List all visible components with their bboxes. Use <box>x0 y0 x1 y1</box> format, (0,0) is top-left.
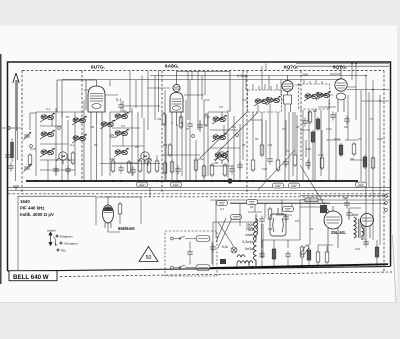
voltage oval AF 3 <box>283 207 294 212</box>
svg-text:0,25: 0,25 <box>334 137 340 141</box>
long vertical wires right <box>348 76 380 246</box>
warning triangle 50 <box>139 247 158 262</box>
IFT2 coil left <box>254 97 269 106</box>
resistor R9 <box>168 143 172 157</box>
antenna series capacitor <box>8 163 14 172</box>
small cap right mid <box>344 200 350 209</box>
terminal A <box>8 127 11 130</box>
svg-text:8mf: 8mf <box>352 213 358 217</box>
junction dots rails <box>340 63 381 102</box>
antenna lead wire <box>16 80 18 181</box>
tuning gang capacitor 2 <box>23 164 31 172</box>
tube V3 6Q7G <box>282 76 293 113</box>
svg-text:0,1: 0,1 <box>70 143 75 147</box>
mains capacitor <box>187 249 193 258</box>
voltage oval AF 1 <box>217 201 228 206</box>
svg-text:900/gram: 900/gram <box>60 235 73 239</box>
resistor R19 <box>352 142 356 156</box>
capacitor C8 <box>267 156 273 165</box>
svg-text:0,25: 0,25 <box>377 137 383 141</box>
right terminals <box>385 195 388 198</box>
zigzag resistor AF <box>256 214 258 240</box>
capacitor mains left <box>210 244 216 253</box>
capacitor C2b <box>130 167 136 176</box>
capacitor C7 <box>175 166 181 175</box>
diagonal resistor R26 <box>300 243 311 257</box>
svg-text:1640: 1640 <box>20 199 30 204</box>
svg-text:100: 100 <box>306 147 311 151</box>
resistor R22 magic eye <box>118 202 122 216</box>
plate rail <box>150 75 366 77</box>
resistor R4 <box>155 159 159 173</box>
resistor left column <box>71 151 75 165</box>
electrolytic can <box>270 208 286 236</box>
antenna coupling coil <box>10 138 14 162</box>
voltage oval above transformer <box>231 215 242 220</box>
transformer heater winding 2 <box>237 255 253 263</box>
diagonal wire 3 <box>258 150 295 190</box>
top right rail 2 <box>296 65 389 67</box>
resistor R5 <box>28 153 32 167</box>
lamp diagonal X wires <box>216 218 234 248</box>
switch contact s2 <box>58 127 61 130</box>
resistor R18 <box>339 143 343 157</box>
dashed vertical x82 <box>81 71 83 181</box>
mains terminal bottom <box>171 266 174 269</box>
page bottom edge <box>0 302 397 304</box>
dashed vertical x384 <box>383 71 385 274</box>
svg-text:0,01: 0,01 <box>198 157 204 161</box>
dashed vertical x22 <box>21 71 23 195</box>
power ground bus <box>210 264 388 268</box>
resistor R12 <box>276 158 280 172</box>
resistor R25 <box>307 248 311 262</box>
svg-text:0,25: 0,25 <box>204 115 210 119</box>
IFT3 coil left <box>304 92 319 101</box>
mains unit dashed box <box>165 231 217 276</box>
dashed bottom line <box>60 272 392 277</box>
IFT2 coil right <box>266 96 281 105</box>
capacitor C7b <box>229 166 235 175</box>
top right rail 1 <box>296 63 389 65</box>
resistor R2d <box>170 160 174 174</box>
frame bottom inner line <box>8 267 390 272</box>
socket circle s1 <box>56 152 70 164</box>
potentiometer knob on bus <box>227 178 232 183</box>
resistor R24 <box>300 245 304 259</box>
antenna <box>13 73 19 131</box>
resistor R23 <box>272 247 276 261</box>
resistor R10 <box>251 158 255 172</box>
svg-text:Indik. 4000 Ω µV: Indik. 4000 Ω µV <box>20 212 54 217</box>
svg-text:70: 70 <box>186 127 190 131</box>
svg-text:2M: 2M <box>344 125 349 129</box>
capacitor C5 <box>187 121 193 130</box>
magic eye tube V5 <box>103 196 114 229</box>
heater line 2 <box>8 189 390 191</box>
detector coil assembly band 1 <box>72 116 87 125</box>
capacitor C13 <box>344 116 350 125</box>
svg-text:PIF 440 kHz: PIF 440 kHz <box>20 206 45 211</box>
component value labels scatter <box>30 105 383 251</box>
svg-text:BELL 640 W: BELL 640 W <box>13 274 49 281</box>
svg-text:0,1: 0,1 <box>232 125 237 129</box>
svg-text:TEL: TEL <box>61 249 67 253</box>
resistor R2b <box>127 160 131 174</box>
resistor R16 <box>311 130 315 144</box>
voltage oval AF 2 <box>247 200 258 205</box>
resistor R27 <box>375 245 379 259</box>
grid capacitor C 0,1 <box>118 102 124 111</box>
horizontal resistor RH1 <box>300 198 324 202</box>
socket circle b1 <box>138 152 152 164</box>
wire transformer left drop <box>213 222 256 266</box>
BELL title box <box>9 271 57 281</box>
svg-text:6U7G.: 6U7G. <box>91 65 106 71</box>
svg-text:70: 70 <box>358 137 362 141</box>
wire bottom right drops <box>302 208 377 267</box>
resistor R8 <box>223 163 227 177</box>
output transformer winding <box>354 217 364 240</box>
capacitor C11 <box>305 160 311 169</box>
electrolytic capacitor C14 <box>285 251 291 260</box>
main frame border <box>8 62 391 271</box>
power transformer primary winding <box>253 218 263 266</box>
resistor R30 <box>268 207 272 221</box>
resistor R21 <box>371 156 375 170</box>
resistor small osc <box>204 113 208 127</box>
svg-text:100: 100 <box>355 247 360 251</box>
socket circle m1 <box>215 152 229 164</box>
svg-text:250k: 250k <box>246 223 253 227</box>
resistor R28 <box>316 250 320 264</box>
resistor R7 <box>194 158 198 172</box>
svg-text:2M: 2M <box>350 157 355 161</box>
svg-text:0,5: 0,5 <box>282 127 287 131</box>
svg-text:2M: 2M <box>214 161 219 165</box>
dashed enclosure top <box>22 70 384 72</box>
svg-text:7mfd: 7mfd <box>246 228 253 232</box>
capacitor 8mf <box>346 210 352 219</box>
RF coil assembly band 2 <box>40 130 55 139</box>
svg-text:0,01: 0,01 <box>146 157 152 161</box>
svg-text:1M: 1M <box>157 117 162 121</box>
osc coil frame wires <box>208 110 240 181</box>
electrolytic capacitor C13 <box>259 251 265 260</box>
svg-text:50: 50 <box>66 115 70 119</box>
capacitor C2 <box>118 165 124 174</box>
svg-text:1M: 1M <box>268 227 273 231</box>
resistor R13 <box>293 153 297 167</box>
IF coil extra knot <box>100 120 115 129</box>
coil unit frame wires <box>30 100 84 181</box>
IFT2 top terminal ticks <box>253 84 277 90</box>
pilot lamp <box>231 247 237 253</box>
voltage oval tag 1 <box>137 182 148 187</box>
IFT3 coil right <box>316 91 331 100</box>
RF coil assembly band 1 <box>40 113 55 122</box>
RF coil assembly band 3 <box>40 148 55 157</box>
IF transformer T3 dashed box <box>299 84 330 109</box>
wire right horizontal 2 <box>361 100 389 102</box>
voltage oval tag 3 <box>273 183 284 188</box>
svg-text:heizk: heizk <box>246 233 254 237</box>
dark label box mains <box>220 259 226 264</box>
capacitor C12 <box>330 112 336 121</box>
mains switch contacts <box>174 236 196 268</box>
diagonal wire 2 <box>218 112 258 152</box>
socket contact m2 <box>236 134 239 137</box>
svg-text:6Q7G.: 6Q7G. <box>333 65 348 71</box>
mid section resistors cluster <box>251 110 375 172</box>
svg-text:4µf: 4µf <box>343 196 348 200</box>
detector coil assembly band 2 <box>72 134 87 143</box>
resistor R17 <box>320 156 324 170</box>
diagonal wire 1 <box>200 112 247 158</box>
svg-text:5v/3a: 5v/3a <box>245 247 253 251</box>
wire antenna tap <box>2 127 22 129</box>
oscillator coil assembly 2 <box>212 133 227 142</box>
wire mains vertical <box>190 242 212 265</box>
transformer heater winding 1 <box>237 261 249 266</box>
wire horizontals main band <box>62 80 366 161</box>
tube V1 6U7G envelope <box>57 80 105 124</box>
power bus junction dots <box>212 263 378 269</box>
svg-text:0,5: 0,5 <box>295 219 300 223</box>
wire verticals main band <box>91 64 356 182</box>
fuse box bottom <box>196 265 210 271</box>
capacitor left of osc <box>197 122 203 131</box>
wire eye to left margin <box>18 196 96 270</box>
svg-text:50: 50 <box>94 143 98 147</box>
capacitor C3 <box>65 166 71 175</box>
fuse box top <box>196 236 210 242</box>
svg-text:50: 50 <box>250 205 254 209</box>
resistor R3 <box>147 160 151 174</box>
svg-text:6,3v/4a: 6,3v/4a <box>243 240 254 244</box>
svg-text:70: 70 <box>286 149 290 153</box>
svg-text:0,25: 0,25 <box>30 147 36 151</box>
IF coil assembly 3 <box>114 148 129 157</box>
svg-text:25: 25 <box>135 145 139 149</box>
svg-text:0,01: 0,01 <box>318 153 324 157</box>
svg-text:1M: 1M <box>268 143 273 147</box>
resistor R20 <box>363 155 367 169</box>
dashed divider 2 <box>100 196 390 198</box>
coil unit 2 frame wires <box>110 108 144 181</box>
capacitor C4 <box>53 166 59 175</box>
resistor R14 <box>308 110 312 124</box>
svg-text:0,1: 0,1 <box>220 207 225 211</box>
svg-text:50: 50 <box>146 255 152 261</box>
output tube V6 25L6G <box>324 206 342 252</box>
svg-text:6Q7G.: 6Q7G. <box>284 65 299 71</box>
svg-text:25: 25 <box>310 227 314 231</box>
bus junction dots <box>35 180 337 182</box>
scan edge left <box>0 54 2 284</box>
svg-text:6A8G.: 6A8G. <box>165 64 180 70</box>
svg-text:100: 100 <box>110 157 115 161</box>
svg-text:0,01: 0,01 <box>326 127 332 131</box>
resistor R11 <box>260 143 264 157</box>
switch rotary wave selector <box>49 232 62 251</box>
capacitor C17 <box>283 214 289 223</box>
wire right horizontal 1 <box>347 89 389 91</box>
dashed divider above heater lines <box>8 193 390 195</box>
voltage oval tag 4 <box>289 183 300 188</box>
antenna pad capacitor <box>5 152 11 161</box>
svg-text:50: 50 <box>255 137 259 141</box>
resistor R1 <box>111 159 115 173</box>
mains terminal top <box>171 237 174 240</box>
resistor R9b <box>202 164 206 178</box>
scan diagonal bottom right <box>393 235 397 302</box>
dark component box right <box>320 205 327 213</box>
resistor R left of tube2 <box>162 112 166 126</box>
capacitor C6 <box>237 162 243 171</box>
dashed vertical x162 <box>161 71 163 195</box>
socket contact m1 <box>192 135 195 138</box>
svg-text:0,5: 0,5 <box>121 124 126 128</box>
capacitor C9 <box>283 159 289 168</box>
screen rail <box>62 79 340 81</box>
wires bottom mid <box>262 197 310 266</box>
IF transformer T2 dashed box <box>248 90 282 112</box>
IF coil assembly 2 <box>114 129 129 138</box>
capacitor C10 <box>302 118 308 127</box>
switch contact s3 <box>30 145 33 148</box>
resistor R9c <box>210 163 214 177</box>
svg-text:2M: 2M <box>163 143 168 147</box>
rectifier tube V7 <box>361 214 374 241</box>
svg-text:winkel: winkel <box>47 229 56 233</box>
dashed vertical x247 <box>246 71 248 195</box>
svg-text:0,1: 0,1 <box>116 97 122 102</box>
IFT3 top terminal ticks <box>304 80 322 85</box>
wires magic eye <box>96 197 141 232</box>
dashed vertical x301 <box>300 71 302 161</box>
resistor R2c <box>163 161 167 175</box>
svg-text:1M: 1M <box>90 125 95 129</box>
tube V4 6Q7G <box>330 66 347 112</box>
capacitor C16 <box>259 216 265 225</box>
svg-text:+Din/gram: +Din/gram <box>64 242 79 246</box>
ground bus main <box>26 180 358 182</box>
IF coil assembly stack (band coils mid) <box>114 112 129 121</box>
resistor R29 <box>325 250 329 264</box>
svg-text:100: 100 <box>262 167 267 171</box>
voltage oval tag 5 <box>356 182 367 187</box>
svg-text:6,3v: 6,3v <box>222 245 228 249</box>
transformer labels <box>243 226 254 251</box>
resistor R2 <box>138 159 142 173</box>
oscillator coil assembly 1 <box>212 115 227 124</box>
switch labels <box>47 229 78 253</box>
svg-text:25: 25 <box>296 125 300 129</box>
voltage oval tag 2 <box>171 182 182 187</box>
svg-text:25: 25 <box>242 143 246 147</box>
svg-text:0,5: 0,5 <box>219 105 224 109</box>
socket contact b2 <box>111 135 114 138</box>
tube V2 6A8G envelope <box>170 72 230 127</box>
capacitor C15 <box>363 239 369 248</box>
resistor R6 <box>179 115 183 129</box>
svg-text:100: 100 <box>302 73 308 77</box>
right terminal 3 <box>385 209 388 212</box>
svg-text:0,1: 0,1 <box>46 107 51 111</box>
ground antenna <box>13 186 19 189</box>
text block model info <box>20 199 54 217</box>
right terminal 2 <box>385 202 388 205</box>
resistor R15 <box>316 117 320 131</box>
diagonal wire 4 <box>300 165 329 212</box>
svg-text:665/6m5: 665/6m5 <box>118 226 135 231</box>
heater line 1 <box>8 186 390 188</box>
oscillator coil assembly 3 <box>214 151 229 160</box>
svg-text:70: 70 <box>370 117 374 121</box>
AF section wires upper bottom band <box>150 187 390 238</box>
svg-text:25L.6G.: 25L.6G. <box>331 230 346 235</box>
tuning gang capacitor 1 <box>23 132 31 140</box>
